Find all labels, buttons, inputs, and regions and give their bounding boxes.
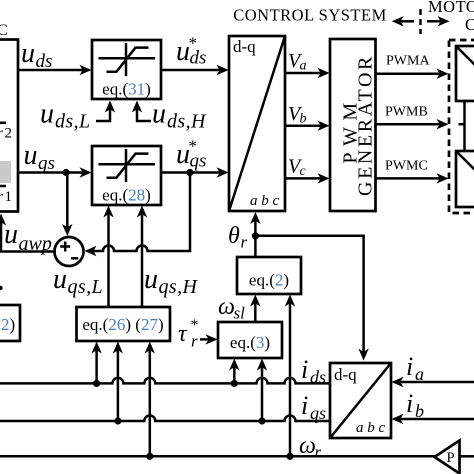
svg-text:1: 1	[5, 189, 13, 205]
wire u_qs,L into eq.(28)	[103, 206, 113, 308]
wire u_qs,H into eq.(28)	[137, 206, 147, 308]
boundary divider left arrow	[392, 16, 414, 26]
node i_qs bus tap left	[114, 417, 121, 424]
wire eq.(26)(27) input from omega_r bus	[145, 342, 155, 457]
wire eq.(26)(27) input from i_ds bus	[91, 342, 101, 384]
svg-text:qs: qs	[310, 403, 326, 423]
node i_qs bus tap	[258, 417, 265, 424]
boundary divider dashed line	[419, 9, 422, 34]
saturation block eq.(28)	[92, 146, 161, 205]
saturation block eq.(31)	[92, 40, 161, 99]
label PWMC	[385, 159, 428, 174]
title CONTROL SYSTEM	[233, 6, 387, 25]
node u*_qs	[186, 169, 193, 176]
svg-text:a: a	[415, 364, 424, 384]
svg-text:ds: ds	[36, 51, 53, 72]
svg-text:qs,L: qs,L	[68, 276, 104, 298]
svg-text:u: u	[53, 264, 67, 295]
inverter switch box top	[456, 46, 474, 101]
svg-text:i: i	[406, 352, 413, 381]
label theta_r	[228, 223, 248, 252]
svg-text:qs: qs	[190, 151, 207, 172]
boundary divider right arrow	[427, 16, 450, 26]
svg-text:2: 2	[5, 126, 13, 142]
wire eq.(26)(27) input from i_qs bus	[113, 342, 123, 422]
wire omega_sl	[250, 295, 260, 323]
label V_a	[288, 50, 307, 74]
node theta_r	[252, 232, 259, 239]
wire u*_ds	[161, 65, 229, 75]
wire summer output u_awp	[0, 214, 55, 252]
svg-text:u: u	[4, 219, 18, 250]
label u*_qs	[176, 137, 206, 172]
node i_ds bus tap left	[93, 380, 100, 387]
svg-text:sl: sl	[234, 304, 246, 323]
label i_qs	[301, 391, 326, 423]
wire V_a	[285, 68, 330, 78]
svg-text:r: r	[315, 443, 322, 462]
svg-text:awp: awp	[19, 233, 52, 255]
label PWMB	[385, 105, 428, 120]
svg-text:eq.(28): eq.(28)	[102, 186, 151, 205]
label u_ds,H	[152, 99, 207, 133]
label tau*_r	[178, 317, 199, 351]
svg-text:a: a	[300, 59, 307, 74]
wire omega_r to eq.(2)	[285, 295, 295, 457]
svg-text:eq.(2): eq.(2)	[249, 271, 289, 290]
svg-text:u: u	[144, 264, 158, 295]
wire u_ds,L	[96, 101, 115, 122]
svg-text:GENERATOR: GENERATOR	[355, 54, 377, 196]
svg-text:ds,H: ds,H	[167, 111, 207, 133]
svg-text:u: u	[40, 99, 54, 130]
svg-text:u: u	[24, 140, 38, 171]
wire u*_qs	[161, 167, 229, 177]
svg-text:a b c: a b c	[356, 420, 386, 436]
block eq.(3)	[218, 322, 282, 358]
inverter gate stub	[459, 123, 465, 126]
inverter dashed enclosure (clipped at right edge)	[449, 40, 474, 213]
fraction bar r2 inside controller	[0, 122, 6, 125]
label u_ds,L	[40, 99, 91, 133]
label omega_sl	[218, 294, 245, 323]
svg-text:PWMA: PWMA	[386, 54, 430, 69]
label u_ds	[21, 38, 52, 72]
svg-text:i: i	[301, 391, 308, 420]
wire u_qs to summer	[62, 173, 72, 237]
label u_qs,H	[144, 264, 198, 298]
svg-text:CONTROL SYSTEM: CONTROL SYSTEM	[233, 6, 387, 25]
wire PWMB	[376, 119, 449, 129]
svg-text:qs: qs	[38, 153, 55, 174]
node u_qs	[62, 169, 69, 176]
wire i_qs into eq.(3)	[257, 359, 267, 422]
svg-text:eq.(26) (27): eq.(26) (27)	[82, 315, 163, 334]
inverter switch box bottom	[456, 151, 474, 207]
svg-text:θ: θ	[228, 223, 240, 249]
label PWMA	[386, 54, 430, 69]
svg-text:ω: ω	[299, 433, 316, 459]
svg-text:d-q: d-q	[334, 365, 357, 384]
svg-text:ds: ds	[190, 48, 207, 69]
svg-text:r: r	[0, 189, 3, 205]
wire u_ds	[18, 65, 92, 75]
wire i_ds into eq.(3)	[229, 359, 239, 384]
wire eq.(2) output theta_r	[250, 212, 260, 257]
feedback wire u*_qs to summer with hops	[85, 173, 191, 257]
svg-text:ds,L: ds,L	[55, 111, 91, 133]
summing junction	[55, 237, 84, 266]
svg-text:u: u	[152, 99, 166, 130]
label i_b	[406, 389, 424, 421]
bus i_qs with hops	[0, 416, 330, 422]
label i_ds	[301, 355, 326, 387]
svg-text:ds: ds	[310, 367, 326, 387]
dq to abc transform block	[229, 36, 285, 211]
svg-text:PWMB: PWMB	[385, 105, 428, 120]
svg-text:qs,H: qs,H	[159, 276, 199, 298]
svg-text:d-q: d-q	[233, 37, 256, 56]
gray equation box fragment	[0, 161, 11, 183]
svg-text:i: i	[301, 355, 308, 384]
svg-text:PWMC: PWMC	[385, 159, 428, 174]
wire i_a	[392, 377, 474, 387]
label i_a	[406, 352, 424, 384]
inverter leg wire	[463, 101, 466, 151]
svg-text:b: b	[300, 112, 307, 127]
title MOTOR (clipped at right edge)	[428, 0, 474, 16]
svg-text:eq.(3): eq.(3)	[230, 333, 270, 352]
label u_qs,L	[53, 264, 103, 298]
abc to dq transform block	[330, 363, 391, 438]
label u*_ds	[176, 34, 206, 69]
wire u_ds,H	[132, 101, 151, 122]
svg-text:a b c: a b c	[250, 193, 280, 209]
label V_b	[288, 103, 307, 127]
wire u_qs	[18, 167, 92, 177]
wire PWMC	[376, 173, 449, 183]
svg-text:r: r	[241, 233, 248, 252]
wire V_b	[285, 121, 330, 131]
svg-text:c: c	[300, 164, 307, 179]
fraction bar r1 inside controller	[0, 185, 6, 188]
svg-text:2): 2)	[1, 315, 15, 334]
wire omega_r from sensor	[460, 455, 474, 458]
svg-text:CONTROL: CONTROL	[465, 15, 474, 34]
stray dot fragment at left edge	[0, 286, 3, 290]
svg-text:eq.(31): eq.(31)	[102, 80, 151, 99]
wire PWMA	[376, 69, 449, 79]
wire i_b	[392, 414, 474, 424]
node omega_r to eq.(2) tap	[286, 453, 293, 460]
svg-text:b: b	[415, 401, 424, 421]
block eq.(26) (27)	[77, 307, 171, 341]
label C (clipped word at left edge)	[0, 22, 8, 39]
svg-text:i: i	[406, 389, 413, 418]
svg-text:C: C	[0, 22, 8, 39]
svg-text:τ: τ	[178, 321, 188, 347]
label u_awp	[4, 219, 52, 255]
block PWM GENERATOR	[330, 39, 377, 211]
svg-text:MOTOR: MOTOR	[428, 0, 474, 16]
svg-text:r: r	[0, 126, 3, 142]
wire tau*_r input	[200, 334, 218, 344]
block eq.(12) clipped at left edge	[0, 305, 20, 341]
node i_ds bus tap	[231, 380, 238, 387]
label r1	[0, 189, 12, 205]
title CONVERTER (clipped at right edge)	[465, 15, 474, 34]
label omega_r	[299, 433, 322, 462]
wire theta_r branch to current transform	[255, 236, 368, 361]
bus i_ds with hops	[0, 378, 330, 384]
wire V_c	[285, 173, 330, 183]
speed sensor triangle P	[435, 441, 460, 474]
svg-text:u: u	[21, 38, 35, 69]
bus omega_r	[0, 455, 435, 458]
svg-text:ω: ω	[218, 294, 235, 320]
block eq.(2)	[237, 257, 301, 294]
svg-text:r: r	[191, 332, 198, 351]
svg-text:P: P	[447, 450, 455, 466]
label r2	[0, 126, 12, 142]
label V_c	[288, 156, 307, 180]
node omega_r bus tap left	[146, 453, 153, 460]
controller block (clipped at left edge)	[0, 40, 18, 212]
label u_qs	[24, 140, 55, 174]
